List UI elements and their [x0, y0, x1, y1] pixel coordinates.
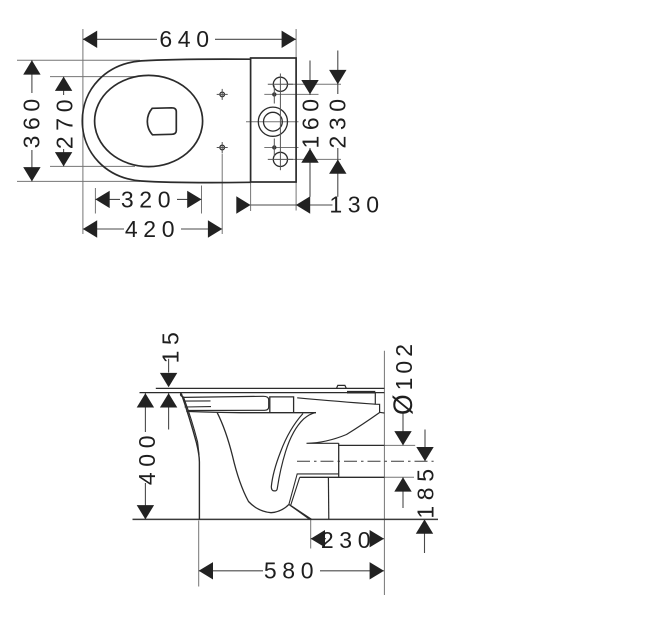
svg-text:400: 400	[134, 430, 160, 485]
svg-text:270: 270	[52, 94, 78, 149]
svg-text:Ø102: Ø102	[388, 340, 418, 415]
svg-text:230: 230	[325, 93, 351, 148]
svg-text:360: 360	[19, 93, 45, 148]
svg-text:580: 580	[264, 558, 319, 584]
svg-text:640: 640	[159, 26, 214, 52]
svg-text:185: 185	[412, 463, 438, 518]
svg-text:160: 160	[298, 93, 324, 148]
svg-text:230: 230	[321, 527, 376, 553]
svg-text:15: 15	[157, 327, 183, 364]
svg-text:420: 420	[125, 216, 180, 242]
svg-text:320: 320	[121, 186, 176, 212]
svg-text:130: 130	[329, 192, 384, 218]
